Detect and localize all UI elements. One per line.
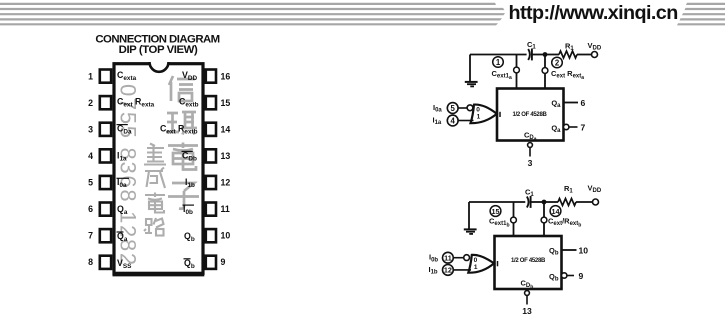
- pin 10 stub: [206, 229, 216, 242]
- pin 2 stub: [100, 96, 111, 109]
- IC box U1a 1/2 OF 4528B: [497, 89, 564, 141]
- pin 3 label CDa with overbar: [117, 124, 132, 136]
- pin 7 label Qa with overbar: [117, 231, 128, 243]
- svg-text:10: 10: [221, 231, 231, 241]
- svg-text:2: 2: [555, 58, 560, 67]
- svg-text:8: 8: [88, 257, 93, 267]
- header stripe band right: [677, 3, 725, 26]
- svg-text:9: 9: [579, 271, 584, 281]
- wire pin2 vertical circuit a: [544, 55, 546, 89]
- svg-text:R1: R1: [564, 184, 573, 195]
- inverting bubble gate G1b input 0: [464, 255, 470, 261]
- terminal circle pin 4: [447, 115, 458, 126]
- svg-text:13: 13: [522, 306, 532, 316]
- terminal circle pin 2: [552, 57, 563, 68]
- terminal circle pin 15: [490, 206, 501, 217]
- svg-text:Cext Rexta: Cext Rexta: [551, 69, 584, 81]
- input gate G1b: [468, 255, 494, 273]
- ground circuit a: [465, 55, 478, 87]
- wire resistor to VDD circuit b: [576, 201, 593, 203]
- pin stub inside box at gate tip circuit b: [497, 261, 499, 266]
- wire CDb to pin 13: [526, 296, 528, 305]
- svg-text:5: 5: [451, 104, 456, 113]
- watermark character 成: [145, 168, 165, 189]
- wire circle4 to gate: [458, 120, 473, 122]
- inverting bubble CDb pin: [525, 291, 530, 296]
- svg-text:I1b: I1b: [429, 265, 438, 276]
- svg-text:12: 12: [444, 266, 452, 275]
- terminal small circle on pin14 wire: [541, 217, 547, 223]
- pin 11 stub: [206, 203, 216, 216]
- watermark character 子: [168, 183, 199, 209]
- svg-text:VDD: VDD: [588, 184, 602, 195]
- svg-text:2: 2: [88, 98, 93, 108]
- svg-text:10: 10: [579, 245, 589, 255]
- inverting bubble CDa pin: [528, 143, 533, 148]
- watermark character 電 small: [145, 193, 165, 213]
- terminal small circle on pin1 wire: [514, 67, 520, 73]
- svg-text:DIP (TOP VIEW): DIP (TOP VIEW): [119, 44, 198, 56]
- resistor R1 circuit b: [558, 199, 576, 206]
- terminal small circle on pin2 wire: [542, 68, 548, 74]
- svg-text:15: 15: [492, 207, 500, 216]
- pin 5 label I0a with overbar: [117, 177, 130, 189]
- svg-text:5: 5: [88, 178, 93, 188]
- svg-text:1: 1: [88, 72, 93, 82]
- svg-text:9: 9: [221, 257, 226, 267]
- svg-text:http://www.xinqi.cn: http://www.xinqi.cn: [509, 2, 678, 24]
- pin 9 stub: [206, 256, 216, 269]
- svg-text:16: 16: [221, 72, 231, 82]
- wire top rail left segment circuit a: [470, 54, 527, 56]
- index notch: [149, 60, 169, 71]
- wire Qa output to pin 6: [564, 102, 579, 104]
- svg-text:7: 7: [88, 231, 93, 241]
- svg-text:15: 15: [221, 98, 231, 108]
- capacitor C1 circuit b: [527, 196, 544, 208]
- VDD terminal circuit b: [593, 199, 599, 205]
- svg-text:Cext1b: Cext1b: [489, 217, 510, 229]
- ground circuit b: [464, 202, 477, 234]
- wire circle5 to bubble: [458, 107, 467, 109]
- junction dot circuit b: [542, 200, 547, 205]
- package body U1 DIP-16: [113, 64, 205, 275]
- pin 8 stub: [100, 256, 111, 269]
- inverting bubble Qa-bar output: [564, 124, 569, 129]
- pin 11 label I0b with overbar: [183, 204, 195, 216]
- svg-text:14: 14: [221, 125, 231, 135]
- VDD terminal circuit a: [592, 52, 598, 58]
- watermark character 琪: [166, 112, 197, 135]
- svg-text:11: 11: [221, 204, 230, 214]
- svg-text:3: 3: [88, 125, 93, 135]
- svg-text:6: 6: [88, 204, 93, 214]
- pin stub inside box at gate tip circuit a: [499, 112, 501, 117]
- svg-text:Cext/Rextb: Cext/Rextb: [548, 217, 581, 229]
- svg-text:1/2 OF 4528B: 1/2 OF 4528B: [512, 112, 547, 118]
- input gate G1a: [471, 105, 497, 124]
- pin 15 stub: [206, 96, 216, 109]
- watermark character 路: [144, 218, 164, 236]
- watermark character 集: [144, 144, 166, 165]
- pin 13 label CDb with overbar: [182, 150, 197, 162]
- svg-text:12: 12: [221, 178, 231, 188]
- svg-text:4: 4: [451, 116, 456, 125]
- wire pin15 vertical circuit b: [513, 202, 515, 236]
- svg-text:11: 11: [444, 254, 452, 263]
- terminal circle pin 11: [443, 252, 454, 263]
- inverting bubble gate G1a input 0: [467, 105, 473, 111]
- terminal small circle on pin15 wire: [511, 217, 517, 223]
- wire pin14 vertical circuit b: [543, 202, 545, 236]
- wire CDa to pin 3: [529, 148, 531, 157]
- svg-text:1/2 OF 4528B: 1/2 OF 4528B: [511, 258, 546, 264]
- pin 3 stub: [100, 123, 111, 136]
- terminal circle pin 5: [447, 103, 458, 114]
- terminal circle pin 12: [443, 265, 454, 276]
- wire circle12 to gate: [453, 269, 471, 271]
- svg-text:6: 6: [581, 98, 586, 108]
- junction dot circuit a: [543, 52, 548, 57]
- svg-text:4: 4: [88, 151, 93, 161]
- pin 5 stub: [100, 176, 111, 189]
- pin 13 stub: [206, 149, 216, 162]
- svg-text:7: 7: [581, 122, 586, 132]
- svg-text:VDD: VDD: [588, 41, 602, 52]
- pin 12 stub: [206, 176, 216, 189]
- wire Qb-bar to pin 9: [567, 275, 574, 277]
- wire pin1 vertical circuit a: [516, 55, 518, 89]
- terminal circle pin 1: [493, 57, 504, 68]
- svg-text:3: 3: [528, 158, 533, 168]
- terminal circle pin 14: [550, 206, 561, 217]
- pin 9 label Qb with overbar: [184, 258, 195, 270]
- capacitor C1 circuit a: [528, 49, 545, 61]
- wire Qb output to pin 10: [562, 249, 577, 251]
- wire top rail left segment circuit b: [469, 201, 525, 203]
- svg-text:C1: C1: [525, 188, 534, 199]
- pin 4 stub: [100, 149, 111, 162]
- svg-text:Cext1a: Cext1a: [492, 69, 512, 81]
- inverting bubble Qb-bar output: [562, 273, 567, 278]
- svg-text:I1a: I1a: [433, 116, 442, 127]
- resistor R1 circuit a: [559, 51, 577, 58]
- pin 6 stub: [100, 203, 111, 216]
- IC box U1b 1/2 OF 4528B: [495, 236, 562, 289]
- svg-text:1: 1: [474, 264, 478, 271]
- svg-text:1: 1: [477, 113, 481, 120]
- wire Qa-bar to pin 7: [569, 126, 578, 128]
- pin 7 stub: [100, 229, 111, 242]
- svg-text:I0b: I0b: [429, 253, 438, 264]
- watermark character 信: [169, 76, 195, 101]
- watermark character 電: [168, 143, 198, 170]
- svg-text:I0a: I0a: [433, 103, 442, 114]
- wire resistor to VDD circuit a: [577, 54, 592, 56]
- header stripe band left: [0, 3, 505, 26]
- pin 1 stub: [100, 70, 111, 83]
- wire junction to resistor circuit b: [544, 201, 558, 203]
- pin 16 stub: [206, 70, 216, 83]
- svg-text:1: 1: [496, 58, 501, 67]
- svg-text:14: 14: [552, 207, 560, 216]
- wire circle11 to bubble: [453, 257, 463, 259]
- wire junction to resistor circuit a: [545, 54, 559, 56]
- svg-text:13: 13: [221, 151, 231, 161]
- pin 14 stub: [206, 123, 216, 136]
